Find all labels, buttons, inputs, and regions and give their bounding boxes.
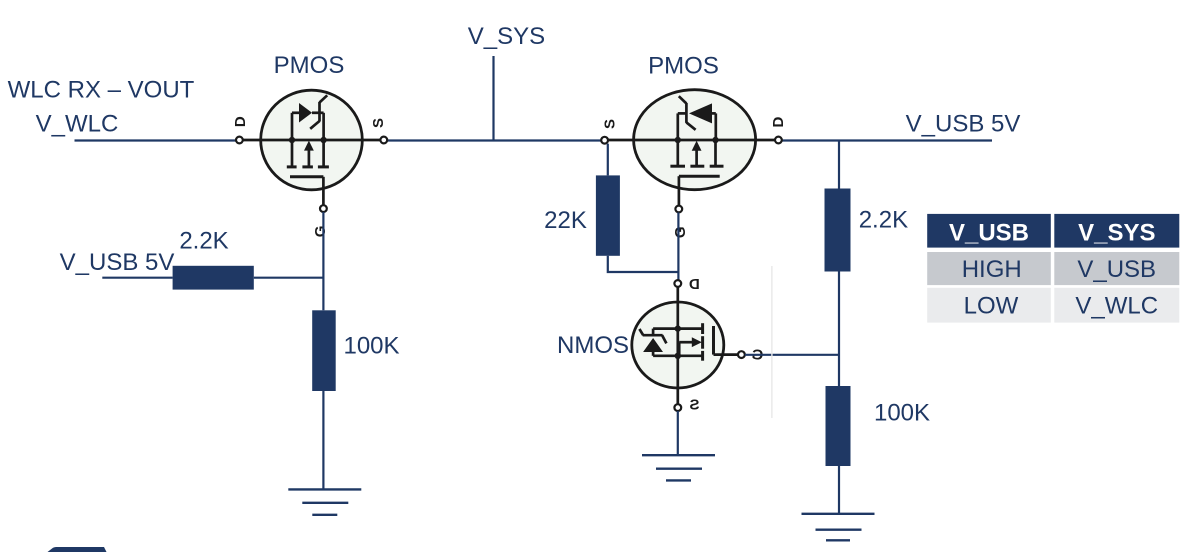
svg-text:S: S bbox=[689, 397, 699, 414]
svg-text:S: S bbox=[370, 118, 387, 128]
ground (right) bbox=[802, 514, 875, 541]
svg-text:2.2K: 2.2K bbox=[179, 228, 228, 255]
svg-text:S: S bbox=[602, 119, 619, 129]
wire V_SYS stub bbox=[492, 56, 494, 141]
pin D terminal of Q1 bbox=[236, 137, 243, 144]
ground (left) bbox=[288, 489, 361, 514]
svg-text:2.2K: 2.2K bbox=[859, 206, 908, 233]
ground (middle, under Q3) bbox=[642, 455, 715, 480]
svg-text:V_USB: V_USB bbox=[949, 219, 1029, 246]
wire R2 to Q1 gate net bbox=[254, 277, 324, 279]
wire Q3 source to ground bbox=[677, 411, 679, 455]
wire V_USB 5V to R2 bbox=[102, 277, 172, 279]
svg-text:PMOS: PMOS bbox=[648, 53, 719, 80]
resistor R5 100K (right) bbox=[826, 386, 851, 466]
svg-text:V_SYS: V_SYS bbox=[468, 23, 545, 50]
pin S terminal of Q3 bbox=[674, 404, 681, 411]
transistor Q1 PMOS (left) bbox=[236, 90, 387, 212]
wire R4 to R5 junction bbox=[838, 272, 840, 387]
svg-text:100K: 100K bbox=[343, 333, 399, 360]
svg-text:22K: 22K bbox=[544, 207, 587, 234]
wire R3 to ground bbox=[322, 391, 324, 489]
svg-text:V_USB 5V: V_USB 5V bbox=[60, 249, 175, 276]
wire Q2 gate to Q3 drain bbox=[677, 212, 679, 280]
resistor R4 2.2K (right) bbox=[825, 189, 851, 272]
pin S terminal of Q2 bbox=[601, 137, 608, 144]
svg-text:V_WLC: V_WLC bbox=[1075, 293, 1158, 320]
svg-text:V_USB: V_USB bbox=[1077, 256, 1156, 283]
svg-text:PMOS: PMOS bbox=[274, 52, 345, 79]
wire Q2 source to R1 bbox=[608, 144, 678, 272]
resistor R2 2.2K (left) bbox=[173, 266, 254, 290]
wire V_USB net down to R4 bbox=[838, 141, 840, 189]
transistor Q3 NMOS bbox=[632, 280, 745, 411]
wire Q1 source to Q2 source bbox=[387, 139, 601, 141]
svg-text:WLC RX – VOUT: WLC RX – VOUT bbox=[8, 77, 195, 104]
svg-text:V_SYS: V_SYS bbox=[1078, 219, 1155, 246]
resistor R3 100K (left) bbox=[312, 310, 336, 391]
pin S terminal of Q1 bbox=[380, 137, 387, 144]
svg-text:D: D bbox=[689, 276, 700, 293]
faint textbox edge bbox=[771, 266, 773, 418]
logo fragment (bottom left) bbox=[48, 547, 107, 552]
svg-text:D: D bbox=[770, 117, 787, 128]
pin G terminal of Q1 bbox=[320, 205, 327, 212]
resistor R1 22K bbox=[596, 175, 620, 255]
svg-text:V_WLC: V_WLC bbox=[36, 111, 119, 138]
svg-text:NMOS: NMOS bbox=[557, 332, 629, 359]
wire Q3 gate to divider junction bbox=[745, 354, 839, 356]
svg-text:100K: 100K bbox=[874, 400, 930, 427]
transistor Q2 PMOS (right, mirrored) bbox=[601, 90, 782, 213]
pin D terminal of Q2 bbox=[775, 137, 782, 144]
svg-text:G: G bbox=[672, 226, 689, 238]
table: V_USB / V_SYS truth table bbox=[927, 214, 1179, 323]
wire R5 to ground bbox=[838, 466, 840, 514]
wire Q2 drain to V_USB 5V bbox=[782, 139, 992, 141]
wire V_WLC to Q1 drain bbox=[75, 139, 237, 141]
svg-text:D: D bbox=[232, 116, 249, 127]
svg-text:G: G bbox=[312, 226, 329, 238]
svg-text:HIGH: HIGH bbox=[962, 256, 1022, 283]
pin G terminal of Q2 bbox=[675, 206, 682, 213]
pin G terminal of Q3 bbox=[738, 351, 745, 358]
svg-text:V_USB 5V: V_USB 5V bbox=[906, 111, 1021, 138]
svg-text:LOW: LOW bbox=[964, 293, 1019, 320]
pin D terminal of Q3 bbox=[674, 280, 681, 287]
wire Q1 gate down to R3 bbox=[322, 212, 324, 310]
